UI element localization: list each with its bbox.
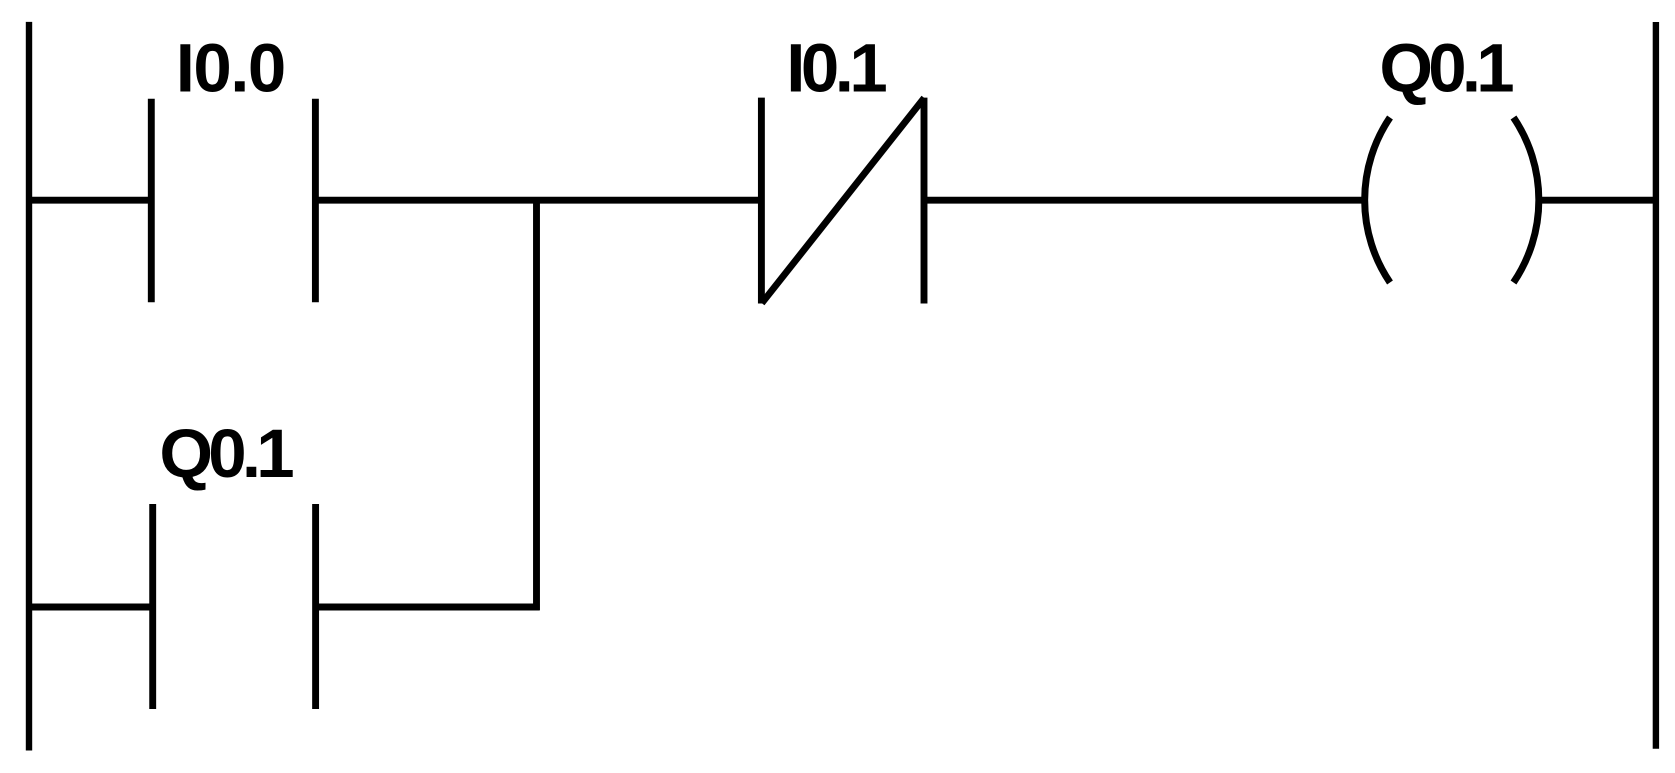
wire: contact I0.1 to coil Q0.1	[924, 197, 1367, 204]
wire: coil Q0.1 to right rail	[1539, 197, 1656, 204]
NO contact Q0.1 right bar	[312, 504, 319, 709]
svg-text:I0.0: I0.0	[176, 30, 287, 107]
wire: branch vertical (node to lower rung)	[533, 197, 540, 610]
NC contact I0.1 left bar	[758, 98, 765, 304]
wire: contact Q0.1 to branch vertical	[316, 604, 540, 611]
svg-text:Q0.1: Q0.1	[159, 415, 294, 492]
NO contact Q0.1 left bar	[149, 504, 156, 709]
left power rail	[26, 22, 32, 751]
NC contact I0.1 right bar	[921, 98, 928, 304]
coil Q0.1 right arc	[1514, 118, 1539, 283]
right power rail	[1653, 22, 1659, 749]
wire: left rail to contact I0.0	[26, 197, 151, 204]
NO contact I0.0 left bar	[148, 99, 155, 303]
svg-text:Q0.1: Q0.1	[1379, 30, 1514, 107]
svg-text:I0.1: I0.1	[786, 30, 887, 107]
NC contact I0.1 slash	[762, 98, 924, 303]
wire: left rail to contact Q0.1 (seal-in branch rung)	[26, 604, 153, 611]
wire: contact I0.0 to contact I0.1	[315, 197, 761, 204]
coil Q0.1 left arc	[1365, 118, 1390, 283]
NO contact I0.0 right bar	[312, 99, 319, 303]
